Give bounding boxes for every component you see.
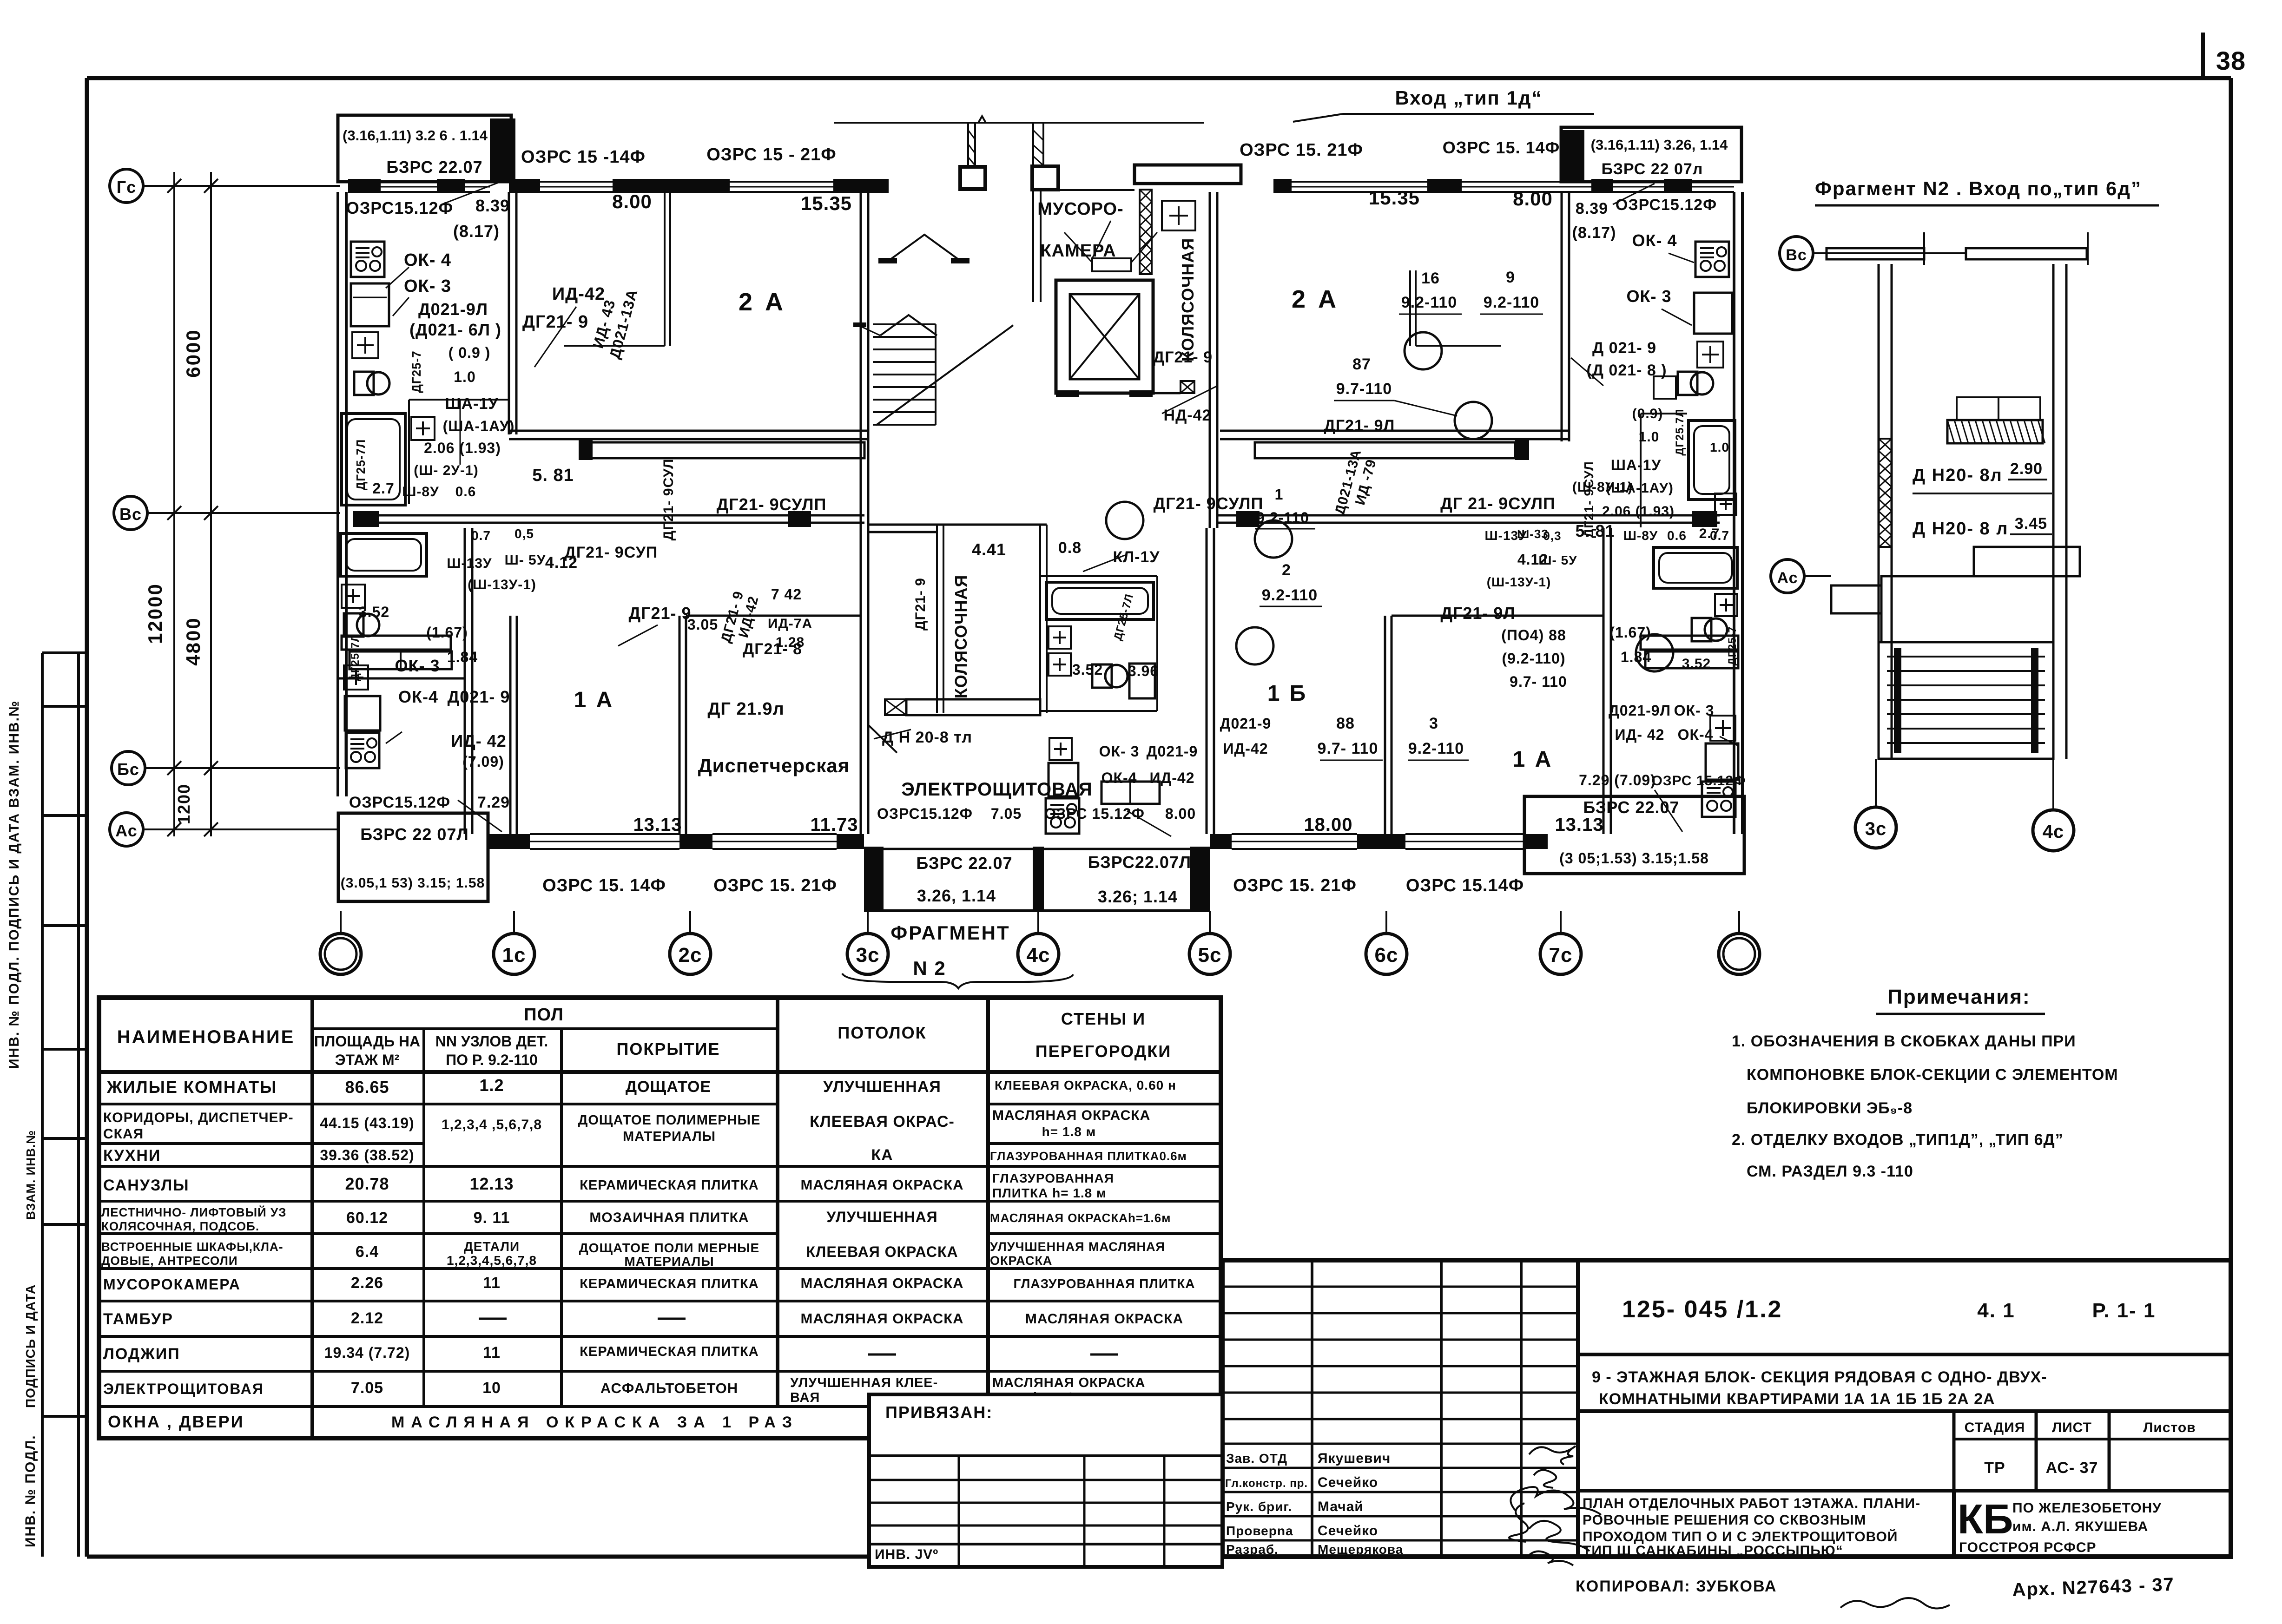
svg-text:0.7: 0.7 xyxy=(471,528,491,543)
wall 1Б left xyxy=(1206,528,1208,834)
svg-text:9.7- 110: 9.7- 110 xyxy=(1318,740,1378,757)
elevator bottom hatch xyxy=(1181,381,1194,393)
svg-text:Ш-8У: Ш-8У xyxy=(1623,528,1658,543)
plus square near tub xyxy=(411,417,435,440)
svg-text:ГЛАЗУРОВАННАЯ ПЛИТКА: ГЛАЗУРОВАННАЯ ПЛИТКА xyxy=(1014,1276,1195,1291)
fragment axis circle 4с xyxy=(2033,810,2074,851)
top wall under balcony left - loggia windows xyxy=(348,181,490,183)
title block outer xyxy=(1222,1260,2231,1557)
axis circle 1с at 1106 xyxy=(494,934,534,974)
svg-text:Ш-13У: Ш-13У xyxy=(1484,528,1527,543)
counter right lower kitchen xyxy=(1706,743,1738,780)
top outer wall band xyxy=(509,179,540,193)
fragment axis circle 3с xyxy=(1855,807,1896,848)
svg-text:1 А: 1 А xyxy=(574,688,614,712)
top wall window ОЗРС 15-21Ф xyxy=(730,181,833,183)
fragment right wall xyxy=(2052,264,2055,759)
svg-text:УЛУЧШЕННАЯ КЛЕЕ-: УЛУЧШЕННАЯ КЛЕЕ- xyxy=(790,1375,938,1390)
bath tub left upper xyxy=(342,414,405,505)
wall 1Б / 1А right xyxy=(1384,616,1386,834)
svg-text:ДГ25-7: ДГ25-7 xyxy=(409,350,423,393)
svg-text:ТИП Ш САНКАБИНЫ „РОССЫПЬЮ“: ТИП Ш САНКАБИНЫ „РОССЫПЬЮ“ xyxy=(1583,1543,1843,1558)
svg-text:ГОССТРОЯ РСФСР: ГОССТРОЯ РСФСР xyxy=(1959,1540,2097,1555)
svg-text:ОК-4: ОК-4 xyxy=(398,687,438,706)
sheet border frame xyxy=(87,76,2231,80)
dim ticks xyxy=(167,179,181,193)
svg-text:ГЛАЗУРОВАННАЯ ПЛИТКА0.6м: ГЛАЗУРОВАННАЯ ПЛИТКА0.6м xyxy=(990,1149,1187,1163)
svg-text:ДГ 21.9л: ДГ 21.9л xyxy=(707,699,784,719)
top-right balcony loggia box xyxy=(1561,127,1741,182)
svg-text:КЛЕЕВАЯ ОКРАСКА, 0.60 н: КЛЕЕВАЯ ОКРАСКА, 0.60 н xyxy=(995,1078,1176,1092)
top wall window right ОЗРС 15.21Ф xyxy=(1292,181,1427,183)
svg-text:МАСЛЯНАЯ ОКРАСКА: МАСЛЯНАЯ ОКРАСКА xyxy=(800,1177,963,1193)
svg-text:3с: 3с xyxy=(1865,819,1887,839)
svg-text:ДГ25-7Л: ДГ25-7Л xyxy=(354,439,368,491)
svg-text:h= 1.8 м: h= 1.8 м xyxy=(1042,1124,1096,1139)
svg-text:9.7- 110: 9.7- 110 xyxy=(1510,673,1567,690)
bath tub right lower xyxy=(1654,547,1737,588)
svg-text:ОК-4: ОК-4 xyxy=(1678,726,1714,743)
center bath tub xyxy=(1047,582,1154,619)
center bath walls xyxy=(1040,575,1157,577)
svg-text:1: 1 xyxy=(1275,486,1284,503)
table outer border xyxy=(99,998,1221,1438)
svg-text:ОК-4: ОК-4 xyxy=(1101,769,1137,786)
svg-text:Диспетчерская: Диспетчерская xyxy=(698,755,850,776)
svg-text:ДГ21- 9СУП: ДГ21- 9СУП xyxy=(565,544,658,561)
axis circle 3с at 1867 xyxy=(847,934,888,974)
bath walls right upper xyxy=(1640,414,1642,527)
elevator door blocks xyxy=(1056,390,1079,397)
svg-text:4с: 4с xyxy=(2043,822,2064,842)
svg-text:Проверna: Проверna xyxy=(1226,1524,1293,1538)
svg-text:МОЗАИЧНАЯ ПЛИТКА: МОЗАИЧНАЯ ПЛИТКА xyxy=(589,1210,749,1225)
corridor south wall right xyxy=(1218,514,1720,517)
svg-text:Д021-9: Д021-9 xyxy=(1220,715,1272,732)
svg-text:МАСЛЯНАЯ ОКРАСКА: МАСЛЯНАЯ ОКРАСКА xyxy=(992,1108,1150,1123)
svg-text:СМ. РАЗДЕЛ 9.3 -110: СМ. РАЗДЕЛ 9.3 -110 xyxy=(1747,1163,1913,1180)
svg-text:0.7: 0.7 xyxy=(1710,528,1729,543)
svg-text:КЕРАМИЧЕСКАЯ ПЛИТКА: КЕРАМИЧЕСКАЯ ПЛИТКА xyxy=(580,1344,758,1359)
wall 1А / Диспетчерская xyxy=(679,616,681,834)
svg-text:2: 2 xyxy=(1282,561,1291,579)
svg-text:Мещерякова: Мещерякова xyxy=(1318,1542,1403,1557)
svg-text:ЭЛЕКТРОЩИТОВАЯ: ЭЛЕКТРОЩИТОВАЯ xyxy=(901,779,1092,800)
fragment stairs xyxy=(1879,642,2053,759)
toilet right upper xyxy=(1691,372,1713,394)
axis circle 7с at 3358 xyxy=(1540,934,1581,974)
svg-text:0.6: 0.6 xyxy=(1667,528,1687,543)
svg-text:КА: КА xyxy=(871,1146,893,1164)
svg-text:(3.16,1.11) 3.26, 1.14: (3.16,1.11) 3.26, 1.14 xyxy=(1591,137,1728,153)
svg-text:( 0.9 ): ( 0.9 ) xyxy=(448,344,491,361)
svg-text:7.05: 7.05 xyxy=(991,805,1022,822)
svg-text:Д Н20- 8 л: Д Н20- 8 л xyxy=(1913,519,2008,539)
svg-text:8.00: 8.00 xyxy=(1513,188,1553,210)
wall right 1А top xyxy=(1392,615,1603,617)
svg-text:7 42: 7 42 xyxy=(771,586,802,603)
svg-text:1.84: 1.84 xyxy=(447,649,478,665)
vestibule wall left hatched xyxy=(967,123,969,167)
entry door caret top xyxy=(889,235,960,261)
привязан box outer xyxy=(869,1394,1222,1567)
svg-text:18.00: 18.00 xyxy=(1304,815,1352,835)
svg-text:1 А: 1 А xyxy=(1513,747,1553,772)
svg-text:N 2: N 2 xyxy=(913,957,946,979)
svg-text:МАСЛЯНАЯ ОКРАСКАh=1.6м: МАСЛЯНАЯ ОКРАСКАh=1.6м xyxy=(990,1211,1171,1225)
top wall window ОЗРС 15-14Ф xyxy=(540,181,613,183)
svg-text:Ас: Ас xyxy=(1777,569,1798,587)
title block main doc number cell xyxy=(1578,1353,2231,1356)
svg-text:(Д021- 6Л ): (Д021- 6Л ) xyxy=(409,320,501,339)
svg-text:(8.17): (8.17) xyxy=(1572,224,1616,242)
svg-text:БЗРС 22.07: БЗРС 22.07 xyxy=(1583,798,1679,817)
svg-text:Д021-9: Д021-9 xyxy=(1147,743,1198,760)
svg-text:(1.67): (1.67) xyxy=(1609,624,1651,641)
svg-text:ДГ21- 9: ДГ21- 9 xyxy=(522,312,588,332)
wall bath cluster left lower xyxy=(464,528,466,834)
svg-text:ПРОХОДОМ ТИП О И С ЭЛЕКТРОЩИТ: ПРОХОДОМ ТИП О И С ЭЛЕКТРОЩИТОВОЙ xyxy=(1583,1529,1898,1545)
svg-text:1с: 1с xyxy=(502,944,526,967)
svg-text:Д021-9Л: Д021-9Л xyxy=(418,300,488,319)
svg-text:КОЛЯСОЧНАЯ: КОЛЯСОЧНАЯ xyxy=(951,575,970,698)
svg-text:2с: 2с xyxy=(679,944,702,967)
stove left kitchen xyxy=(351,242,384,277)
fragment left wall xyxy=(1878,264,1880,759)
shelf ledge below 2А left xyxy=(590,442,864,458)
svg-text:ТАМБУР: ТАМБУР xyxy=(103,1310,173,1328)
elevator shaft xyxy=(1056,280,1153,393)
title block theme text xyxy=(1578,1409,2231,1413)
svg-text:ОК- 3: ОК- 3 xyxy=(1627,287,1672,306)
axis circle 5с at 2603 xyxy=(1189,934,1230,974)
svg-text:ОЗРС15.12Ф: ОЗРС15.12Ф xyxy=(877,805,973,822)
center stove xyxy=(1046,798,1079,834)
svg-text:ОЗРС 15. 14Ф: ОЗРС 15. 14Ф xyxy=(1443,138,1560,157)
svg-text:8.39: 8.39 xyxy=(1576,200,1608,217)
svg-text:6с: 6с xyxy=(1375,944,1398,967)
svg-text:ДГ21- 9СУЛП: ДГ21- 9СУЛП xyxy=(717,495,827,514)
wall kitchen/2А divider left xyxy=(508,192,510,434)
svg-text:ПЛОЩАДЬ НА: ПЛОЩАДЬ НА xyxy=(314,1033,420,1050)
shelf left lower 1 xyxy=(342,636,451,650)
svg-text:3с: 3с xyxy=(856,944,880,967)
svg-text:(Ш- 2У-1): (Ш- 2У-1) xyxy=(414,463,478,478)
svg-text:(ША-1АУ): (ША-1АУ) xyxy=(443,418,515,434)
top wall window right ОЗРС 15.14Ф xyxy=(1462,181,1591,183)
svg-text:2.90: 2.90 xyxy=(2010,460,2043,478)
svg-text:БЗРС 22 07Л: БЗРС 22 07Л xyxy=(360,825,468,844)
entry door caret lower xyxy=(880,315,937,335)
top wall under balcony right xyxy=(1584,181,1734,183)
svg-text:ША-1У: ША-1У xyxy=(445,395,498,413)
svg-text:КЛЕЕВАЯ ОКРАС-: КЛЕЕВАЯ ОКРАС- xyxy=(810,1113,955,1131)
мусорокамера left wall xyxy=(1032,190,1034,302)
bottom wall window under 1Б xyxy=(1232,833,1357,835)
toilet left lower xyxy=(357,614,379,636)
axis line Бс xyxy=(145,767,340,769)
svg-text:2.26: 2.26 xyxy=(351,1274,383,1292)
callout circle right upper xyxy=(1405,332,1442,369)
partition inside 2А left xyxy=(664,192,666,346)
entry pier block left xyxy=(960,167,985,189)
fragment lintel block xyxy=(1947,420,2043,443)
svg-text:МУСОРО-: МУСОРО- xyxy=(1037,199,1123,219)
svg-text:ОЗРС 15.12Ф: ОЗРС 15.12Ф xyxy=(1044,805,1145,822)
svg-text:ДОВЫЕ, АНТРЕСОЛИ: ДОВЫЕ, АНТРЕСОЛИ xyxy=(101,1254,238,1268)
svg-text:9 - ЭТАЖНАЯ БЛОК- СЕКЦИЯ Р: 9 - ЭТАЖНАЯ БЛОК- СЕКЦИЯ РЯДОВАЯ С ОДНО-… xyxy=(1592,1368,2047,1386)
svg-text:13.13: 13.13 xyxy=(1555,815,1603,835)
svg-text:9.2-110: 9.2-110 xyxy=(1256,509,1309,526)
axis line Вс xyxy=(147,512,340,514)
stair break diagonal xyxy=(876,325,1013,425)
svg-text:1.0: 1.0 xyxy=(454,368,475,385)
stove left lower xyxy=(346,733,379,768)
svg-text:44.15 (43.19): 44.15 (43.19) xyxy=(320,1115,414,1131)
svg-text:БЗРС 22.07: БЗРС 22.07 xyxy=(386,158,482,177)
svg-text:(Д 021- 8 ): (Д 021- 8 ) xyxy=(1586,362,1667,379)
svg-text:8.00: 8.00 xyxy=(1165,805,1196,822)
svg-text:4.12: 4.12 xyxy=(545,554,578,572)
svg-text:Мачай: Мачай xyxy=(1318,1499,1364,1514)
svg-text:УЛУЧШЕННАЯ: УЛУЧШЕННАЯ xyxy=(823,1078,941,1096)
svg-text:8.39: 8.39 xyxy=(475,196,510,215)
table column line x912 xyxy=(422,1029,425,1407)
svg-text:5с: 5с xyxy=(1198,944,1222,967)
vestibule wall right hatched xyxy=(1032,123,1034,166)
svg-text:6000: 6000 xyxy=(182,329,204,377)
колясочная room walls xyxy=(936,525,938,713)
svg-text:0,5: 0,5 xyxy=(514,526,534,541)
svg-text:Ас: Ас xyxy=(115,821,138,840)
svg-text:3.52: 3.52 xyxy=(359,604,389,620)
bath tub right upper xyxy=(1688,421,1735,500)
title block signature grid rows upper xyxy=(1222,1286,1578,1288)
center toilet xyxy=(1105,665,1128,687)
callout circle right 1А xyxy=(1636,634,1673,671)
axis circle corner at 733 xyxy=(320,934,361,974)
svg-text:ПОКРЫТИЕ: ПОКРЫТИЕ xyxy=(617,1039,720,1059)
bottom wall window under right 1А xyxy=(1405,833,1524,835)
svg-text:Фрагмент N2 . Вход по„тип 6д”: Фрагмент N2 . Вход по„тип 6д” xyxy=(1815,178,2142,199)
bottom center entrance porch xyxy=(864,847,884,911)
axis circle Гс xyxy=(110,169,143,203)
svg-text:Якушевич: Якушевич xyxy=(1318,1451,1391,1466)
svg-text:ЖИЛЫЕ КОМНАТЫ: ЖИЛЫЕ КОМНАТЫ xyxy=(106,1078,277,1097)
svg-text:ДГ21- 9: ДГ21- 9 xyxy=(913,578,928,631)
svg-text:Вс: Вс xyxy=(119,505,142,524)
axis circle corner at 3742 xyxy=(1719,934,1760,974)
svg-text:ДГ21- 9СУЛ: ДГ21- 9СУЛ xyxy=(661,459,676,541)
svg-text:ОКРАСКА: ОКРАСКА xyxy=(990,1254,1052,1268)
svg-text:1200: 1200 xyxy=(174,783,193,824)
svg-text:0.8: 0.8 xyxy=(1058,539,1082,557)
stair core left wall xyxy=(860,192,862,528)
svg-text:4. 1: 4. 1 xyxy=(1977,1299,2015,1322)
stair core right wall xyxy=(1209,192,1211,528)
sink right kitchen xyxy=(1694,293,1732,334)
svg-text:ПО ЖЕЛЕЗОБЕТОНУ: ПО ЖЕЛЕЗОБЕТОНУ xyxy=(2012,1500,2162,1516)
counter left lower kitchen xyxy=(345,696,380,730)
svg-text:ДГ21- 9СУЛП: ДГ21- 9СУЛП xyxy=(1154,494,1264,513)
axis circle Вс xyxy=(114,496,147,530)
svg-text:УЛУЧШЕННАЯ МАСЛЯНАЯ: УЛУЧШЕННАЯ МАСЛЯНАЯ xyxy=(990,1240,1165,1254)
svg-text:7.29 (7.09): 7.29 (7.09) xyxy=(1579,772,1656,789)
svg-text:МАТЕРИАЛЫ: МАТЕРИАЛЫ xyxy=(624,1254,714,1269)
svg-text:ОК- 3: ОК- 3 xyxy=(404,276,451,296)
sink counter left kitchen xyxy=(351,283,389,326)
table column line x1208 xyxy=(560,1029,563,1407)
svg-text:САНУЗЛЫ: САНУЗЛЫ xyxy=(103,1177,190,1194)
svg-text:УЛУЧШЕННАЯ: УЛУЧШЕННАЯ xyxy=(826,1209,937,1225)
svg-text:2 А: 2 А xyxy=(1292,285,1339,313)
signature squiggles xyxy=(1529,1446,1576,1465)
svg-text:Вход „тип 1д“: Вход „тип 1д“ xyxy=(1395,87,1543,109)
svg-text:11.73: 11.73 xyxy=(811,815,858,835)
svg-text:Примечания:: Примечания: xyxy=(1887,986,2030,1008)
top-left balcony loggia box xyxy=(338,115,511,182)
svg-text:НАИМЕНОВАНИЕ: НАИМЕНОВАНИЕ xyxy=(117,1027,295,1047)
right 2А bottom wall xyxy=(1220,430,1569,432)
shelf right lower xyxy=(1641,636,1738,650)
label Д021-9 (Д021-8) right leaders xyxy=(1571,358,1603,386)
table column line x2126 xyxy=(986,998,990,1407)
axis circle 4с at 2234 xyxy=(1018,934,1059,974)
svg-text:9: 9 xyxy=(1506,269,1515,286)
svg-text:7.05: 7.05 xyxy=(351,1379,383,1397)
svg-text:ОЗРС 15.14Ф: ОЗРС 15.14Ф xyxy=(1406,876,1524,895)
svg-text:ОК- 3: ОК- 3 xyxy=(395,656,440,675)
svg-text:Рук. бриг.: Рук. бриг. xyxy=(1226,1499,1292,1514)
bottom wall window under 1А xyxy=(530,833,679,835)
svg-text:NN УЗЛОВ ДЕТ.: NN УЗЛОВ ДЕТ. xyxy=(435,1033,548,1050)
corridor south wall left xyxy=(376,514,864,517)
svg-text:ОЗРС 15. 21Ф: ОЗРС 15. 21Ф xyxy=(713,876,837,895)
plus box in stair hall xyxy=(1162,201,1195,230)
svg-text:КОЛЯСОЧНАЯ: КОЛЯСОЧНАЯ xyxy=(1178,238,1197,362)
svg-text:(Ш-13У-1): (Ш-13У-1) xyxy=(1487,575,1551,589)
svg-text:ПЛАН ОТДЕЛОЧНЫХ РАБОТ 1ЭТАЖА.: ПЛАН ОТДЕЛОЧНЫХ РАБОТ 1ЭТАЖА. ПЛАНИ- xyxy=(1583,1496,1920,1511)
svg-text:КОЛЯСОЧНАЯ, ПОДСОБ.: КОЛЯСОЧНАЯ, ПОДСОБ. xyxy=(101,1219,259,1233)
svg-text:ОЗРС 15.12Ф: ОЗРС 15.12Ф xyxy=(1651,773,1746,789)
svg-text:ДОЩАТОЕ ПОЛИМЕРНЫЕ: ДОЩАТОЕ ПОЛИМЕРНЫЕ xyxy=(578,1113,761,1128)
svg-text:ОК- 3: ОК- 3 xyxy=(1674,702,1715,719)
axis circle Ас xyxy=(110,813,143,846)
svg-text:(1.67): (1.67) xyxy=(426,624,468,641)
svg-text:15.35: 15.35 xyxy=(801,192,852,214)
svg-text:13.13: 13.13 xyxy=(633,815,682,835)
svg-text:Листов: Листов xyxy=(2143,1420,2196,1435)
svg-text:1.0: 1.0 xyxy=(1710,440,1729,454)
svg-text:6.4: 6.4 xyxy=(356,1243,379,1261)
svg-text:Р. 1- 1: Р. 1- 1 xyxy=(2092,1299,2156,1322)
svg-text:9.7-110: 9.7-110 xyxy=(1336,380,1392,398)
svg-text:КЛЕЕВАЯ ОКРАСКА: КЛЕЕВАЯ ОКРАСКА xyxy=(806,1243,958,1260)
svg-text:ОК- 4: ОК- 4 xyxy=(404,250,451,270)
svg-text:МАСЛЯНАЯ ОКРАСКА ЗА 1 РАЗ: МАСЛЯНАЯ ОКРАСКА ЗА 1 РАЗ xyxy=(391,1414,798,1431)
axis circle 6с at 2983 xyxy=(1366,934,1407,974)
dimension line 4800/6000/1200 xyxy=(210,172,212,836)
электрощитовая door xyxy=(868,725,897,753)
page number tick xyxy=(2201,33,2205,80)
svg-text:МУСОРОКАМЕРА: МУСОРОКАМЕРА xyxy=(103,1276,241,1293)
svg-text:КБ: КБ xyxy=(1958,1496,2013,1543)
svg-text:ПОЛ: ПОЛ xyxy=(524,1005,564,1025)
svg-text:ГЛАЗУРОВАННАЯ: ГЛАЗУРОВАННАЯ xyxy=(992,1171,1114,1185)
svg-text:(8.17): (8.17) xyxy=(453,222,500,241)
svg-text:МАТЕРИАЛЫ: МАТЕРИАЛЫ xyxy=(623,1129,716,1144)
svg-text:ЭТАЖ М²: ЭТАЖ М² xyxy=(335,1052,400,1068)
svg-text:ДОЩАТОЕ: ДОЩАТОЕ xyxy=(626,1078,711,1096)
svg-text:11: 11 xyxy=(483,1344,501,1361)
dimension line 12000 xyxy=(173,172,175,836)
callout circle left of 1Б xyxy=(1106,502,1143,539)
callout circle corridor right xyxy=(1255,520,1292,558)
table column line x1673 xyxy=(776,998,779,1407)
svg-text:9.2-110: 9.2-110 xyxy=(1408,740,1464,757)
svg-text:2.06 (1.93): 2.06 (1.93) xyxy=(1602,504,1675,519)
svg-text:ИД- 42: ИД- 42 xyxy=(1615,726,1665,743)
svg-text:ПЛИТКА h= 1.8 м: ПЛИТКА h= 1.8 м xyxy=(992,1186,1107,1200)
svg-text:4.41: 4.41 xyxy=(972,540,1006,559)
svg-text:ФРАГМЕНТ: ФРАГМЕНТ xyxy=(890,922,1010,944)
svg-text:ОК- 4: ОК- 4 xyxy=(1632,231,1677,250)
bottom-left loggia box xyxy=(338,813,488,901)
svg-text:8.00: 8.00 xyxy=(612,191,652,212)
svg-text:ОЗРС15.12Ф: ОЗРС15.12Ф xyxy=(346,198,453,217)
svg-text:19.34 (7.72): 19.34 (7.72) xyxy=(324,1344,410,1361)
svg-text:(3 05;1.53) 3.15;1.58: (3 05;1.53) 3.15;1.58 xyxy=(1559,850,1709,867)
svg-text:ИД- 42: ИД- 42 xyxy=(451,731,507,750)
svg-text:ОЗРС15.12Ф: ОЗРС15.12Ф xyxy=(349,794,450,811)
svg-text:4.12: 4.12 xyxy=(1517,551,1548,568)
svg-text:3.52: 3.52 xyxy=(1682,656,1711,671)
stove right kitchen xyxy=(1695,242,1729,277)
svg-text:60.12: 60.12 xyxy=(346,1209,388,1227)
svg-text:1,2,3,4 ,5,6,7,8: 1,2,3,4 ,5,6,7,8 xyxy=(442,1117,542,1132)
svg-text:Д021- 9: Д021- 9 xyxy=(448,687,510,706)
svg-text:КОРИДОРЫ, ДИСПЕТЧЕР-: КОРИДОРЫ, ДИСПЕТЧЕР- xyxy=(103,1110,294,1125)
svg-text:1.84: 1.84 xyxy=(1621,649,1651,665)
svg-text:КАМЕРА: КАМЕРА xyxy=(1040,241,1116,261)
bottom outer wall band xyxy=(488,834,530,849)
svg-text:СТЕНЫ И: СТЕНЫ И xyxy=(1061,1009,1146,1028)
svg-text:АС- 37: АС- 37 xyxy=(2046,1459,2098,1477)
fragment axis circle Вс xyxy=(1780,237,1813,270)
svg-text:КОМПОНОВКЕ БЛОК-СЕКЦИИ С ЭЛЕ: КОМПОНОВКЕ БЛОК-СЕКЦИИ С ЭЛЕМЕНТОМ xyxy=(1747,1066,2118,1084)
svg-text:Зав. ОТД: Зав. ОТД xyxy=(1226,1451,1287,1466)
right outer wall xyxy=(1733,192,1735,834)
svg-text:38: 38 xyxy=(2216,46,2246,75)
svg-text:БЗРС 22.07: БЗРС 22.07 xyxy=(916,854,1012,873)
svg-text:(ПО4) 88: (ПО4) 88 xyxy=(1501,627,1566,644)
svg-text:1.28: 1.28 xyxy=(776,635,805,650)
axis circle Бс xyxy=(112,751,145,785)
callout circle right 2А xyxy=(1455,402,1492,439)
svg-text:4с: 4с xyxy=(1027,944,1050,967)
svg-text:(3.16,1.11) 3.2 6 . 1.14: (3.16,1.11) 3.2 6 . 1.14 xyxy=(343,127,488,144)
svg-text:КОПИРОВАЛ: ЗУБКОВА: КОПИРОВАЛ: ЗУБКОВА xyxy=(1576,1578,1777,1595)
entry pier block right xyxy=(1032,166,1058,190)
svg-text:1,2,3,4,5,6,7,8: 1,2,3,4,5,6,7,8 xyxy=(447,1253,537,1268)
svg-text:Сечейко: Сечейко xyxy=(1318,1475,1378,1490)
svg-text:9.2-110: 9.2-110 xyxy=(1262,586,1318,604)
center shelf xyxy=(1101,782,1160,804)
axis line Ас xyxy=(143,828,340,830)
svg-text:Д021-9Л: Д021-9Л xyxy=(1609,702,1671,719)
svg-text:3.96: 3.96 xyxy=(1128,663,1159,679)
svg-text:15.35: 15.35 xyxy=(1369,187,1420,209)
